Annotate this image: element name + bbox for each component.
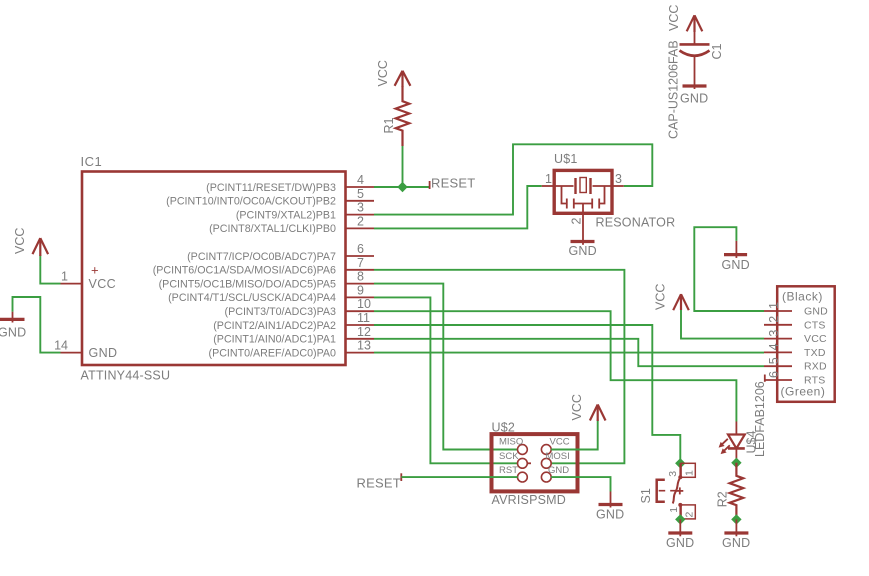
svg-text:3: 3 — [767, 330, 781, 337]
IC1 pin stubs right — [346, 187, 375, 353]
svg-text:GND: GND — [804, 306, 828, 318]
svg-text:VCC: VCC — [654, 284, 668, 310]
svg-text:GND: GND — [666, 536, 694, 550]
svg-text:(PCINT6/OC1A/SDA/MOSI/ADC6)PA6: (PCINT6/OC1A/SDA/MOSI/ADC6)PA6 — [153, 265, 336, 277]
header U$2 body — [492, 434, 578, 491]
svg-text:SCK: SCK — [499, 451, 519, 462]
svg-text:RTS: RTS — [804, 375, 825, 387]
svg-text:RESET: RESET — [357, 476, 401, 491]
connector RTS cross — [764, 375, 766, 382]
svg-text:(PCINT3/T0/ADC3)PA3: (PCINT3/T0/ADC3)PA3 — [225, 306, 337, 318]
LED U$4 — [719, 422, 745, 463]
wire pin12 to RXD — [374, 339, 764, 366]
svg-text:2: 2 — [684, 512, 696, 518]
power VCC arrow top-left — [33, 238, 49, 256]
crystal plates — [554, 185, 573, 187]
svg-text:TXD: TXD — [804, 347, 826, 359]
svg-text:CTS: CTS — [804, 319, 826, 331]
svg-text:GND: GND — [596, 508, 624, 522]
ground symbol R2 — [724, 519, 748, 536]
LED emission arrows — [720, 439, 728, 446]
IC1 pin numbers right — [357, 173, 371, 353]
S1 actuator bracket — [657, 480, 665, 502]
wire U$2 GND to ground — [551, 477, 610, 491]
U$2 pin labels — [499, 437, 570, 477]
svg-text:RST: RST — [499, 465, 518, 476]
svg-text:(Black): (Black) — [782, 290, 823, 304]
power VCC arrow above R1 — [395, 71, 411, 87]
net label RESET anchor cross — [429, 181, 431, 189]
S1 top pin — [679, 463, 681, 477]
svg-text:RESONATOR: RESONATOR — [596, 215, 676, 229]
svg-text:1: 1 — [684, 470, 696, 476]
IC IC1 body — [82, 172, 346, 366]
wire R1 to junction — [402, 146, 404, 187]
resistor R1 — [396, 86, 410, 146]
svg-text:U$2: U$2 — [492, 421, 516, 435]
svg-text:GND: GND — [722, 536, 750, 550]
svg-text:10: 10 — [357, 297, 371, 311]
svg-text:U$1: U$1 — [554, 152, 578, 166]
wire pin8 to U$2 MISO — [374, 284, 518, 450]
connector pin labels — [804, 306, 828, 387]
svg-text:(PCINT11/RESET/DW)PB3: (PCINT11/RESET/DW)PB3 — [206, 182, 336, 194]
S1 cross — [676, 490, 683, 492]
svg-text:4: 4 — [767, 343, 781, 350]
svg-text:AVRISPSMD: AVRISPSMD — [492, 493, 567, 507]
svg-text:3: 3 — [357, 201, 364, 215]
resistor R2 — [730, 463, 744, 520]
svg-text:1: 1 — [545, 172, 552, 186]
resonator pin 2 stub — [582, 213, 584, 228]
wire pin13 to TXD — [374, 352, 764, 354]
connector J1 body — [777, 286, 835, 402]
power VCC arrow above C1 — [687, 15, 703, 32]
U$2 pin pads — [518, 445, 552, 482]
svg-text:14: 14 — [54, 339, 68, 353]
svg-text:3: 3 — [667, 471, 679, 477]
svg-text:VCC: VCC — [89, 277, 117, 291]
svg-text:VCC: VCC — [804, 333, 827, 345]
svg-text:GND: GND — [680, 92, 708, 106]
node LED-R2 junction dot — [731, 458, 741, 468]
svg-text:C1: C1 — [710, 43, 724, 59]
wire pin2 to resonator pin1 — [374, 186, 542, 228]
wire pin3 to resonator pin3 loop — [374, 144, 652, 214]
wire pin7 to U$2 MOSI — [374, 270, 624, 464]
svg-text:S1: S1 — [639, 488, 653, 503]
svg-text:(PCINT1/AIN0/ADC1)PA1: (PCINT1/AIN0/ADC1)PA1 — [213, 334, 336, 346]
svg-text:9: 9 — [357, 283, 364, 297]
svg-text:(PCINT0/AREF/ADC0)PA0: (PCINT0/AREF/ADC0)PA0 — [209, 347, 337, 359]
svg-text:1: 1 — [767, 302, 781, 309]
svg-text:RESET: RESET — [431, 175, 475, 190]
svg-text:(PCINT4/T1/SCL/USCK/ADC4)PA4: (PCINT4/T1/SCL/USCK/ADC4)PA4 — [168, 292, 336, 304]
node R2-GND junction dot — [731, 514, 741, 524]
S1 dashed link — [659, 490, 677, 492]
svg-text:VCC: VCC — [376, 60, 390, 86]
ground symbol C1 — [683, 84, 707, 87]
switch S1 — [657, 458, 696, 524]
power VCC arrow above U$2 — [590, 405, 606, 422]
resonator U$1 body — [554, 170, 612, 213]
svg-text:VCC: VCC — [550, 437, 570, 448]
svg-text:GND: GND — [569, 244, 597, 258]
svg-text:IC1: IC1 — [81, 154, 103, 169]
svg-text:GND: GND — [722, 258, 750, 272]
S1 bottom contact box — [681, 505, 695, 519]
S1 bottom junction dot — [675, 514, 685, 524]
resonator pin 1 stub — [542, 185, 555, 187]
svg-text:6: 6 — [767, 371, 781, 378]
svg-text:2: 2 — [357, 214, 364, 228]
svg-text:VCC: VCC — [13, 228, 27, 254]
wire pin4 to RESET junction — [374, 186, 430, 188]
svg-text:1: 1 — [61, 270, 68, 284]
svg-text:ATTINY44-SSU: ATTINY44-SSU — [81, 369, 171, 383]
ground symbol connector net — [724, 241, 747, 258]
svg-text:12: 12 — [357, 325, 371, 339]
svg-text:5: 5 — [357, 187, 364, 201]
connector pin stubs — [764, 311, 792, 380]
IC1 pin function labels — [153, 182, 336, 360]
IC1 pin numbers left — [54, 270, 68, 353]
svg-text:7: 7 — [357, 256, 364, 270]
svg-text:5: 5 — [767, 357, 781, 364]
wire connector VCC — [681, 309, 764, 339]
S1 top contact box — [681, 463, 695, 477]
svg-text:4: 4 — [357, 173, 364, 187]
svg-text:(PCINT10/INT0/OC0A/CKOUT)PB2: (PCINT10/INT0/OC0A/CKOUT)PB2 — [166, 196, 336, 208]
svg-text:3: 3 — [615, 172, 622, 186]
svg-text:U$4: U$4 — [745, 431, 759, 454]
S1 bottom pin — [678, 503, 682, 507]
svg-text:(PCINT5/OC1B/MISO/DO/ADC5)PA5: (PCINT5/OC1B/MISO/DO/ADC5)PA5 — [159, 278, 336, 290]
internal caps — [562, 186, 567, 204]
svg-text:RXD: RXD — [804, 361, 827, 373]
ground symbol left — [0, 312, 25, 323]
svg-text:11: 11 — [357, 311, 370, 325]
svg-text:CAP-US1206FAB: CAP-US1206FAB — [667, 40, 681, 139]
svg-text:6: 6 — [357, 242, 364, 256]
svg-text:8: 8 — [357, 270, 364, 284]
svg-text:GND: GND — [0, 326, 26, 340]
svg-text:MOSI: MOSI — [546, 451, 570, 462]
S1 lever — [673, 477, 681, 503]
ground symbol S1 — [668, 519, 692, 536]
svg-text:+: + — [91, 263, 99, 278]
wire pin11 to switch S1 — [374, 325, 680, 463]
svg-text:(PCINT9/XTAL2)PB1: (PCINT9/XTAL2)PB1 — [236, 209, 336, 221]
svg-text:R2: R2 — [716, 491, 730, 507]
resonator pin 3 stub — [612, 185, 624, 187]
net label RESET bottom anchor cross — [400, 473, 402, 481]
wire pin9 to U$2 SCK — [374, 297, 518, 463]
connector pin numbers — [767, 302, 781, 378]
power VCC arrow at connector — [673, 294, 689, 310]
svg-text:VCC: VCC — [570, 394, 584, 420]
wire U$2 VCC to arrow — [551, 420, 598, 450]
svg-text:MISO: MISO — [499, 437, 523, 448]
svg-text:(PCINT2/AIN1/ADC2)PA2: (PCINT2/AIN1/ADC2)PA2 — [213, 320, 336, 332]
svg-text:GND: GND — [89, 346, 118, 360]
wire connector GND net — [694, 227, 764, 311]
IC1 pin stubs left (pin 1, pin 14) — [61, 284, 83, 353]
wire RESET to U$2 RST — [401, 476, 517, 478]
node RESET junction dot — [397, 182, 407, 192]
ground symbol U$2 — [599, 492, 623, 508]
svg-text:VCC: VCC — [667, 5, 681, 31]
S1 top junction dot — [675, 458, 685, 468]
svg-text:R1: R1 — [382, 117, 396, 133]
U$2 SCK pin tick — [527, 462, 531, 464]
svg-text:(PCINT8/XTAL1/CLKI)PB0: (PCINT8/XTAL1/CLKI)PB0 — [209, 223, 336, 235]
svg-text:2: 2 — [767, 316, 781, 323]
svg-text:13: 13 — [357, 339, 371, 353]
svg-text:(PCINT7/ICP/OC0B/ADC7)PA7: (PCINT7/ICP/OC0B/ADC7)PA7 — [187, 251, 336, 263]
capacitor C1 — [680, 31, 710, 89]
wire pin14 to GND — [13, 297, 61, 353]
wire pin1 to VCC — [40, 255, 60, 284]
ground symbol resonator — [571, 228, 595, 245]
wire pin10 to LED U$4 — [374, 311, 736, 421]
svg-text:1: 1 — [668, 507, 680, 513]
svg-text:GND: GND — [548, 465, 569, 476]
svg-text:2: 2 — [570, 218, 584, 225]
